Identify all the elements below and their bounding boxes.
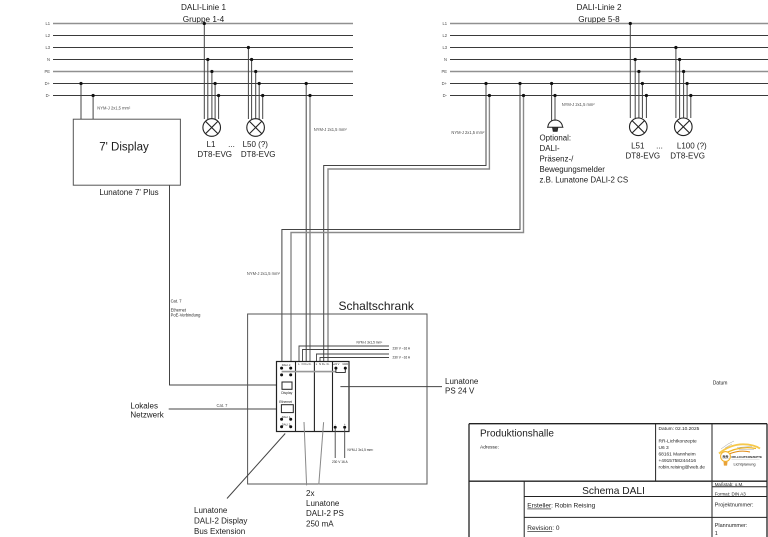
svg-text:-: - (335, 423, 336, 426)
svg-text:L100 (?): L100 (?) (677, 141, 707, 150)
svg-text:NYM-J 2x1,5 mm²: NYM-J 2x1,5 mm² (97, 105, 131, 110)
svg-text:Bus Extension: Bus Extension (194, 527, 245, 536)
svg-text:L3: L3 (45, 45, 50, 50)
pair A junction dots (305, 82, 312, 97)
ethernet wire labels Cat.7 PoE (171, 298, 202, 317)
device box (bus extension + 2x PS + PS24V) (277, 362, 350, 432)
svg-text:Datum: 02.10.2025: Datum: 02.10.2025 (659, 426, 700, 432)
svg-text:Plannummer:: Plannummer: (715, 523, 748, 529)
svg-text:RR-Lichtkonzepte: RR-Lichtkonzepte (659, 439, 697, 445)
logo (719, 441, 762, 466)
lamp L100 junction dots (674, 46, 692, 97)
bus2 line D+ (450, 83, 768, 85)
bus2 line N (450, 59, 768, 61)
PS24V bottom terminal dots (335, 423, 346, 426)
svg-text:Lunatone: Lunatone (445, 377, 479, 386)
24V supply wire from PS24V to bus extension (282, 371, 336, 373)
230V feed stub 2 (303, 350, 390, 362)
Display port (282, 382, 292, 389)
PS 24V label (445, 377, 479, 396)
bus2 line L1 (450, 23, 768, 25)
lamp L50 junction dots (247, 46, 265, 97)
svg-text:DT8-EVG: DT8-EVG (670, 151, 705, 160)
bus1 line N (53, 59, 353, 61)
section3 terminal labels (316, 362, 330, 366)
svg-text:PE: PE (45, 69, 51, 74)
svg-text:Revision: 0: Revision: 0 (527, 525, 560, 532)
svg-text:DALI-: DALI- (540, 144, 561, 153)
svg-text:1: 1 (715, 531, 718, 537)
svg-text:250 mA: 250 mA (306, 519, 334, 528)
lamp group2 labels (625, 141, 707, 160)
svg-text:NYM-J 2x1,5 mm²: NYM-J 2x1,5 mm² (451, 130, 485, 135)
DALI-Linie 1 title (181, 3, 227, 24)
svg-text:D-: D- (443, 93, 448, 98)
lamp L50 symbol (247, 119, 265, 137)
device divider 1 (295, 362, 297, 432)
bus extension leader line (227, 434, 285, 499)
sensor text block (540, 133, 629, 184)
svg-text:DALI 1: DALI 1 (282, 415, 291, 419)
presence sensor symbol B1 (547, 120, 563, 131)
section4 top terminal dots (334, 367, 346, 370)
svg-text:Produktionshalle: Produktionshalle (480, 429, 554, 440)
svg-text:2x: 2x (306, 489, 314, 498)
svg-text:Lunatone 7' Plus: Lunatone 7' Plus (99, 188, 158, 197)
230V feed stub 3 (317, 354, 390, 362)
svg-text:D-: D- (327, 362, 330, 366)
svg-text:Lichtplanung: Lichtplanung (734, 461, 756, 466)
230V feed stub 1 (299, 346, 389, 362)
svg-text:230 V ~16 A: 230 V ~16 A (393, 355, 411, 359)
svg-text:Cat. 7: Cat. 7 (217, 403, 229, 408)
svg-text:N: N (444, 57, 447, 62)
bus1 line D+ (53, 83, 353, 85)
svg-text:Display: Display (281, 391, 292, 395)
svg-text:Bewegungsmelder: Bewegungsmelder (540, 165, 606, 174)
device divider 3 (332, 362, 334, 432)
svg-text:Ersteller: Robin Reising: Ersteller: Robin Reising (527, 503, 595, 510)
lamp L1 junction dots (203, 22, 221, 97)
svg-text:230 V 16 A: 230 V 16 A (332, 460, 348, 464)
svg-text:DT8-EVG: DT8-EVG (197, 150, 232, 159)
title block frame (469, 424, 767, 537)
svg-text:NYM-J 2x1,5 mm²: NYM-J 2x1,5 mm² (247, 271, 281, 276)
svg-text:RR: RR (722, 454, 728, 459)
bus2 line L2 (450, 35, 768, 37)
svg-text:Netzwerk: Netzwerk (130, 411, 164, 420)
svg-text:z.B. Lunatone DALI-2 CS: z.B. Lunatone DALI-2 CS (540, 175, 629, 184)
sensor junction dots (550, 82, 557, 97)
svg-text:D+: D+ (322, 362, 326, 366)
svg-text:D+: D+ (442, 81, 448, 86)
svg-text:DALI-Linie 1: DALI-Linie 1 (181, 3, 227, 12)
bus2 drop2 to cabinet (pair C) (282, 84, 524, 369)
lamp L50 drop wires (248, 48, 262, 120)
svg-text:NYM-J 3x1,5 mm²: NYM-J 3x1,5 mm² (348, 448, 374, 452)
Schaltschrank enclosure (248, 314, 427, 484)
svg-text:+4915758244416: +4915758244416 (659, 458, 697, 464)
lamp L100 symbol (675, 118, 693, 136)
svg-text:Projektnummer:: Projektnummer: (715, 502, 754, 508)
svg-text:DALI-2 PS: DALI-2 PS (306, 509, 344, 518)
svg-text:DALI-2 Display: DALI-2 Display (194, 516, 247, 525)
svg-text:Cat. 7: Cat. 7 (171, 298, 183, 303)
svg-text:PoE-Verbindung: PoE-Verbindung (171, 313, 202, 318)
svg-text:L3: L3 (442, 45, 447, 50)
svg-text:DT8-EVG: DT8-EVG (241, 150, 276, 159)
lamp L51 symbol (630, 118, 648, 136)
lamp L51 drop wires (630, 24, 646, 119)
svg-text:Schaltschrank: Schaltschrank (339, 299, 415, 313)
svg-text:Schema DALI: Schema DALI (582, 486, 645, 497)
bus1 line L2 (53, 35, 353, 37)
lokales netzwerk wire (169, 408, 282, 410)
bus1 line D- (53, 95, 353, 97)
svg-text:N: N (319, 362, 321, 366)
7' Display wire junction dots (79, 82, 94, 97)
svg-text:RR-LICHTKONZEPTE: RR-LICHTKONZEPTE (732, 455, 763, 459)
pair C junction dots (518, 82, 525, 97)
svg-text:Präsenz-/: Präsenz-/ (540, 154, 575, 163)
svg-text:N: N (47, 57, 50, 62)
svg-text:D-: D- (46, 93, 51, 98)
svg-text:NYM-J 3x1,5 mm²: NYM-J 3x1,5 mm² (357, 341, 383, 345)
bus1 line L3 (53, 47, 353, 49)
bus1 line L1 (53, 23, 353, 25)
svg-text:D+: D+ (45, 81, 51, 86)
svg-text:L1: L1 (45, 21, 50, 26)
svg-text:7' Display: 7' Display (99, 141, 149, 153)
svg-text:Format: DIN A3: Format: DIN A3 (715, 491, 747, 496)
lamp group1 labels (197, 140, 275, 159)
lamp L100 drop wires (676, 48, 691, 119)
svg-text:N: N (302, 362, 304, 366)
230V feed stub 4 (320, 358, 389, 362)
2x PS leader lines (304, 422, 307, 485)
svg-text:L2: L2 (442, 33, 447, 38)
svg-text:Lokales: Lokales (130, 401, 158, 410)
svg-text:GND: GND (342, 362, 348, 366)
svg-text:L2: L2 (45, 33, 50, 38)
lokales netzwerk label (130, 401, 164, 419)
lamp L1 symbol (203, 119, 221, 137)
230V stub labels (357, 341, 411, 360)
svg-text:robin.reising@web.de: robin.reising@web.de (659, 465, 706, 471)
svg-text:...: ... (656, 141, 663, 150)
7' Display wires to D+/D- (81, 84, 93, 120)
DALI-Linie 2 title (576, 3, 622, 24)
svg-text:DALI 2: DALI 2 (282, 423, 291, 427)
svg-text:Optional:: Optional: (540, 133, 572, 142)
lamp L1 drop wires (204, 24, 218, 120)
bus1 line PE (53, 71, 353, 73)
svg-text:68161 Mannheim: 68161 Mannheim (659, 452, 696, 458)
PS 24V leader line (340, 386, 442, 388)
device divider 2 (313, 362, 315, 432)
svg-text:230 V ~16 A: 230 V ~16 A (393, 346, 411, 350)
svg-text:NYM-J 2x1,5 mm²: NYM-J 2x1,5 mm² (314, 127, 348, 132)
svg-text:U6 3: U6 3 (659, 445, 669, 451)
bus2 line PE (450, 71, 768, 73)
svg-text:DT8-EVG: DT8-EVG (625, 151, 660, 160)
sensor drop wires (552, 84, 555, 121)
bus2 line L3 (450, 47, 768, 49)
svg-text:D-: D- (309, 362, 312, 366)
svg-text:DALI d: DALI d (282, 363, 291, 367)
svg-text:L51: L51 (631, 141, 645, 150)
svg-text:L1: L1 (442, 21, 447, 26)
svg-text:Lunatone: Lunatone (306, 499, 340, 508)
ethernet wire from display to cabinet (170, 185, 283, 385)
title block inner lines (524, 424, 767, 537)
svg-text:...: ... (228, 140, 235, 149)
pair B junction dots (484, 82, 491, 97)
bus2 line D- (450, 95, 768, 97)
svg-text:Gruppe 5-8: Gruppe 5-8 (578, 15, 620, 24)
bus1 D+/D- drop to cabinet (pair A) (306, 84, 310, 362)
svg-text:DALI-Linie 2: DALI-Linie 2 (576, 3, 622, 12)
7' Display box U1 (73, 119, 180, 185)
2x PS label (306, 489, 344, 528)
svg-text:NYM-J 2x1,5 mm²: NYM-J 2x1,5 mm² (562, 102, 596, 107)
bus extension label (194, 506, 247, 536)
svg-text:L50 (?): L50 (?) (243, 140, 269, 149)
svg-text:Lunatone: Lunatone (194, 506, 228, 515)
title block contact (659, 439, 706, 471)
svg-text:Adresse:: Adresse: (480, 445, 499, 451)
svg-text:PS 24 V: PS 24 V (445, 386, 475, 395)
section2 terminal labels (298, 362, 311, 366)
section4 terminal labels (333, 362, 349, 366)
svg-text:Datum: Datum (713, 380, 728, 386)
bus2 drop1 to cabinet (pair B) (324, 84, 490, 362)
lamp L51 junction dots (629, 22, 648, 97)
svg-text:L1: L1 (207, 140, 216, 149)
svg-text:Maßstab: o.M.: Maßstab: o.M. (715, 482, 744, 487)
section1 top terminal dots (280, 367, 292, 377)
svg-text:Ethernet: Ethernet (279, 400, 292, 404)
svg-text:+24 V: +24 V (333, 362, 340, 366)
PS24V mains wires down (335, 428, 345, 458)
svg-text:PE: PE (442, 69, 448, 74)
PS24V mains labels (332, 448, 373, 464)
